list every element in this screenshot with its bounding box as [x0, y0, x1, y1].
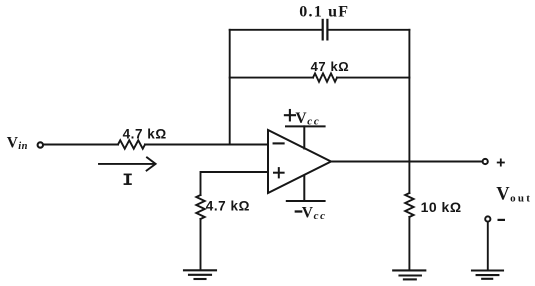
svg-text:47 kΩ: 47 kΩ	[311, 59, 350, 74]
op-amp plus input symbol	[274, 168, 284, 177]
label +Vcc plus sign	[285, 110, 295, 120]
resistor 4.7 kOhm (input)	[118, 140, 145, 148]
node Vin terminal	[38, 142, 43, 147]
current arrow I	[99, 157, 156, 170]
svg-text:Vcc: Vcc	[302, 204, 327, 222]
resistor 47 kOhm (feedback)	[313, 73, 337, 81]
ground (middle)	[393, 270, 425, 279]
wire top loop right segment	[328, 29, 409, 31]
wire 47k left segment	[230, 77, 313, 79]
svg-text:0.1 uF: 0.1 uF	[299, 3, 349, 20]
+Vcc rail	[286, 125, 325, 127]
wire top loop left segment	[230, 29, 322, 31]
node output terminal minus	[485, 216, 490, 221]
capacitor 0.1 uF	[323, 20, 328, 40]
op-amp triangle	[268, 130, 331, 193]
wire output junction down to 10k	[408, 162, 410, 194]
op-amp minus input symbol	[274, 142, 284, 144]
-Vcc rail	[287, 200, 325, 202]
wire feedback left vertical	[229, 30, 231, 145]
svg-text:4.7 kΩ: 4.7 kΩ	[123, 126, 167, 141]
svg-text:10 kΩ: 10 kΩ	[421, 199, 462, 215]
label I	[124, 174, 132, 184]
-Vcc stub wire	[303, 176, 305, 202]
resistor 10 kOhm	[405, 193, 413, 217]
svg-text:Vin: Vin	[7, 134, 28, 152]
resistor 4.7 kOhm (to ground)	[196, 195, 204, 219]
wire Vin to input resistor	[44, 144, 118, 146]
wire op-amp noninverting input	[201, 172, 269, 195]
wire op-amp output	[331, 161, 482, 163]
wire feedback right vertical	[408, 30, 410, 162]
node output terminal plus	[483, 159, 488, 164]
ground (right)	[472, 271, 503, 279]
svg-text:Vcc: Vcc	[295, 110, 320, 128]
wire 47k right segment	[337, 77, 409, 79]
svg-text:4.7 kΩ: 4.7 kΩ	[206, 199, 250, 214]
wire input resistor to op-amp inverting input	[145, 144, 268, 146]
wire resistor to ground	[200, 219, 202, 270]
label + output symbol	[498, 159, 504, 165]
ground (left)	[184, 270, 216, 279]
wire terminal minus to ground	[487, 222, 489, 271]
label - output symbol	[499, 219, 504, 221]
svg-text:Vout: Vout	[496, 185, 532, 205]
label -Vcc minus sign	[296, 210, 301, 212]
wire 10k to ground	[408, 217, 410, 270]
+Vcc stub wire	[303, 126, 305, 148]
